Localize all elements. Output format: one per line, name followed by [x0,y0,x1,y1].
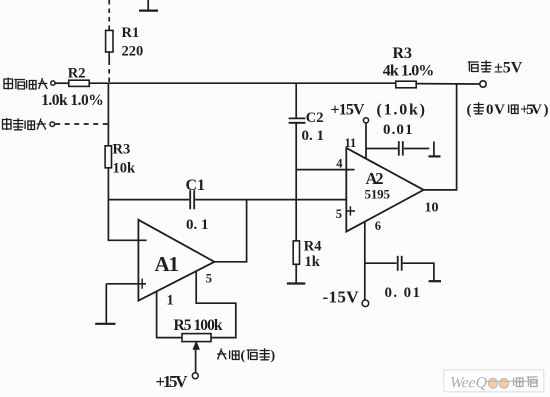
svg-text:-15V: -15V [323,287,360,306]
wire (feedback rail right of C1) [195,199,346,201]
ground (below R4) [287,282,305,284]
node: -15V terminal [362,300,369,307]
ground (top bypass) [429,142,441,157]
wire (to bypass cap bottom) [365,262,397,264]
svg-text:+15V: +15V [156,372,189,391]
wire [107,168,109,200]
svg-text:): ) [271,349,276,364]
plus sign A1 [141,279,143,289]
node: current input terminal [50,122,55,127]
svg-text:±5V: ±5V [494,60,523,77]
svg-text:0V: 0V [486,102,505,118]
wire (pin 11 supply) [365,123,367,159]
resistor R4 [293,241,299,264]
svg-text:(: ( [241,349,246,364]
resistor R3 10k [105,146,111,168]
svg-text:C2: C2 [306,110,324,126]
wire (R1 bottom lead) [108,52,110,61]
svg-text:0. 1: 0. 1 [186,217,209,233]
svg-text:(: ( [467,102,472,118]
wire (C2 to R4) [295,123,297,241]
svg-text:4: 4 [336,157,343,171]
svg-text:A2: A2 [366,169,384,188]
label 失调(任意) [217,348,276,363]
label 电压输入 [4,78,47,90]
svg-text:(1.0k): (1.0k) [377,102,426,119]
wire (dashed lead below R1) [108,61,110,83]
svg-text:5: 5 [206,272,212,286]
capacitor 0.01 (top) [399,141,403,155]
resistor R3 4k [396,81,416,88]
ground (top) [139,0,158,11]
plus sign A2 [346,206,355,215]
node: voltage input terminal [51,81,55,85]
wire (feedback rail left of C1) [108,199,189,201]
watermark WeeQoo [444,370,544,392]
wire [295,264,297,283]
wire (pin 6 down) [364,222,366,300]
label (或0V到+5V) [467,102,549,118]
wire [404,148,429,150]
wire (pin 1 to R5) [157,292,182,338]
wire (A2 output up to rail) [424,83,457,190]
svg-text:6: 6 [375,219,381,233]
svg-text:0.01: 0.01 [383,122,413,138]
wire (main top rail) [89,82,396,84]
svg-text:R3: R3 [393,45,413,62]
wire (pin 4) [296,169,354,171]
wire [403,263,434,281]
wire (A1 + input) [106,283,146,285]
svg-text:220: 220 [122,44,144,60]
wire (to output terminal) [416,83,480,85]
op-amp A1 [138,220,214,301]
svg-text:): ) [544,102,549,118]
svg-text:10k: 10k [113,161,137,177]
svg-text:1k: 1k [305,254,321,270]
potentiometer R5 [182,334,211,342]
wire (dashed lead above R1) [108,0,110,30]
wire (left vertical, top rail to R3) [107,83,109,146]
capacitor 0.01 (bottom) [398,256,402,271]
svg-text:0. 1: 0. 1 [302,128,325,144]
svg-text:+15V: +15V [331,102,365,119]
node: output terminal [480,81,486,87]
svg-text:A1: A1 [155,252,180,276]
wire (to ground) [105,284,107,324]
svg-text:1.0k 1.0%: 1.0k 1.0% [41,92,103,109]
svg-text:1: 1 [167,292,174,308]
wiper arrow [193,342,199,373]
ground (bottom bypass) [429,280,441,282]
wire (C2 branch vertical top) [295,83,297,118]
resistor R2 [69,80,89,86]
label 电流输入 [3,118,46,130]
capacitor C1 [190,190,194,209]
svg-text:R2: R2 [68,66,86,82]
svg-text:10: 10 [425,201,439,216]
svg-text:5195: 5195 [365,187,391,202]
capacitor C2 [289,118,306,122]
svg-text:WeeQ: WeeQ [450,375,487,392]
svg-text:R5 100k: R5 100k [174,317,223,334]
wire (A1 inverting input branch) [108,200,146,241]
svg-text:4k 1.0%: 4k 1.0% [383,63,435,80]
svg-text:+5V: +5V [520,102,542,118]
svg-text:R3: R3 [113,141,131,157]
node: +15V terminal (pin 11) [363,118,368,123]
label 输出±5V [468,60,523,77]
wire (to bypass cap) [366,148,398,150]
node: +15V terminal (wiper) [192,373,198,379]
resistor R1 [106,30,113,52]
wire (dashed current input) [55,123,108,125]
wire (R5 right to pin 5) [196,271,236,338]
ground (A1 + input) [95,323,115,325]
svg-text:C1: C1 [186,177,206,194]
wire [55,82,69,84]
op-amp A2 [346,148,423,232]
svg-text:5: 5 [336,207,342,221]
svg-text:R4: R4 [304,238,322,254]
svg-text:R1: R1 [122,25,140,41]
svg-text:11: 11 [345,136,357,150]
wire (A1 output) [214,200,246,262]
